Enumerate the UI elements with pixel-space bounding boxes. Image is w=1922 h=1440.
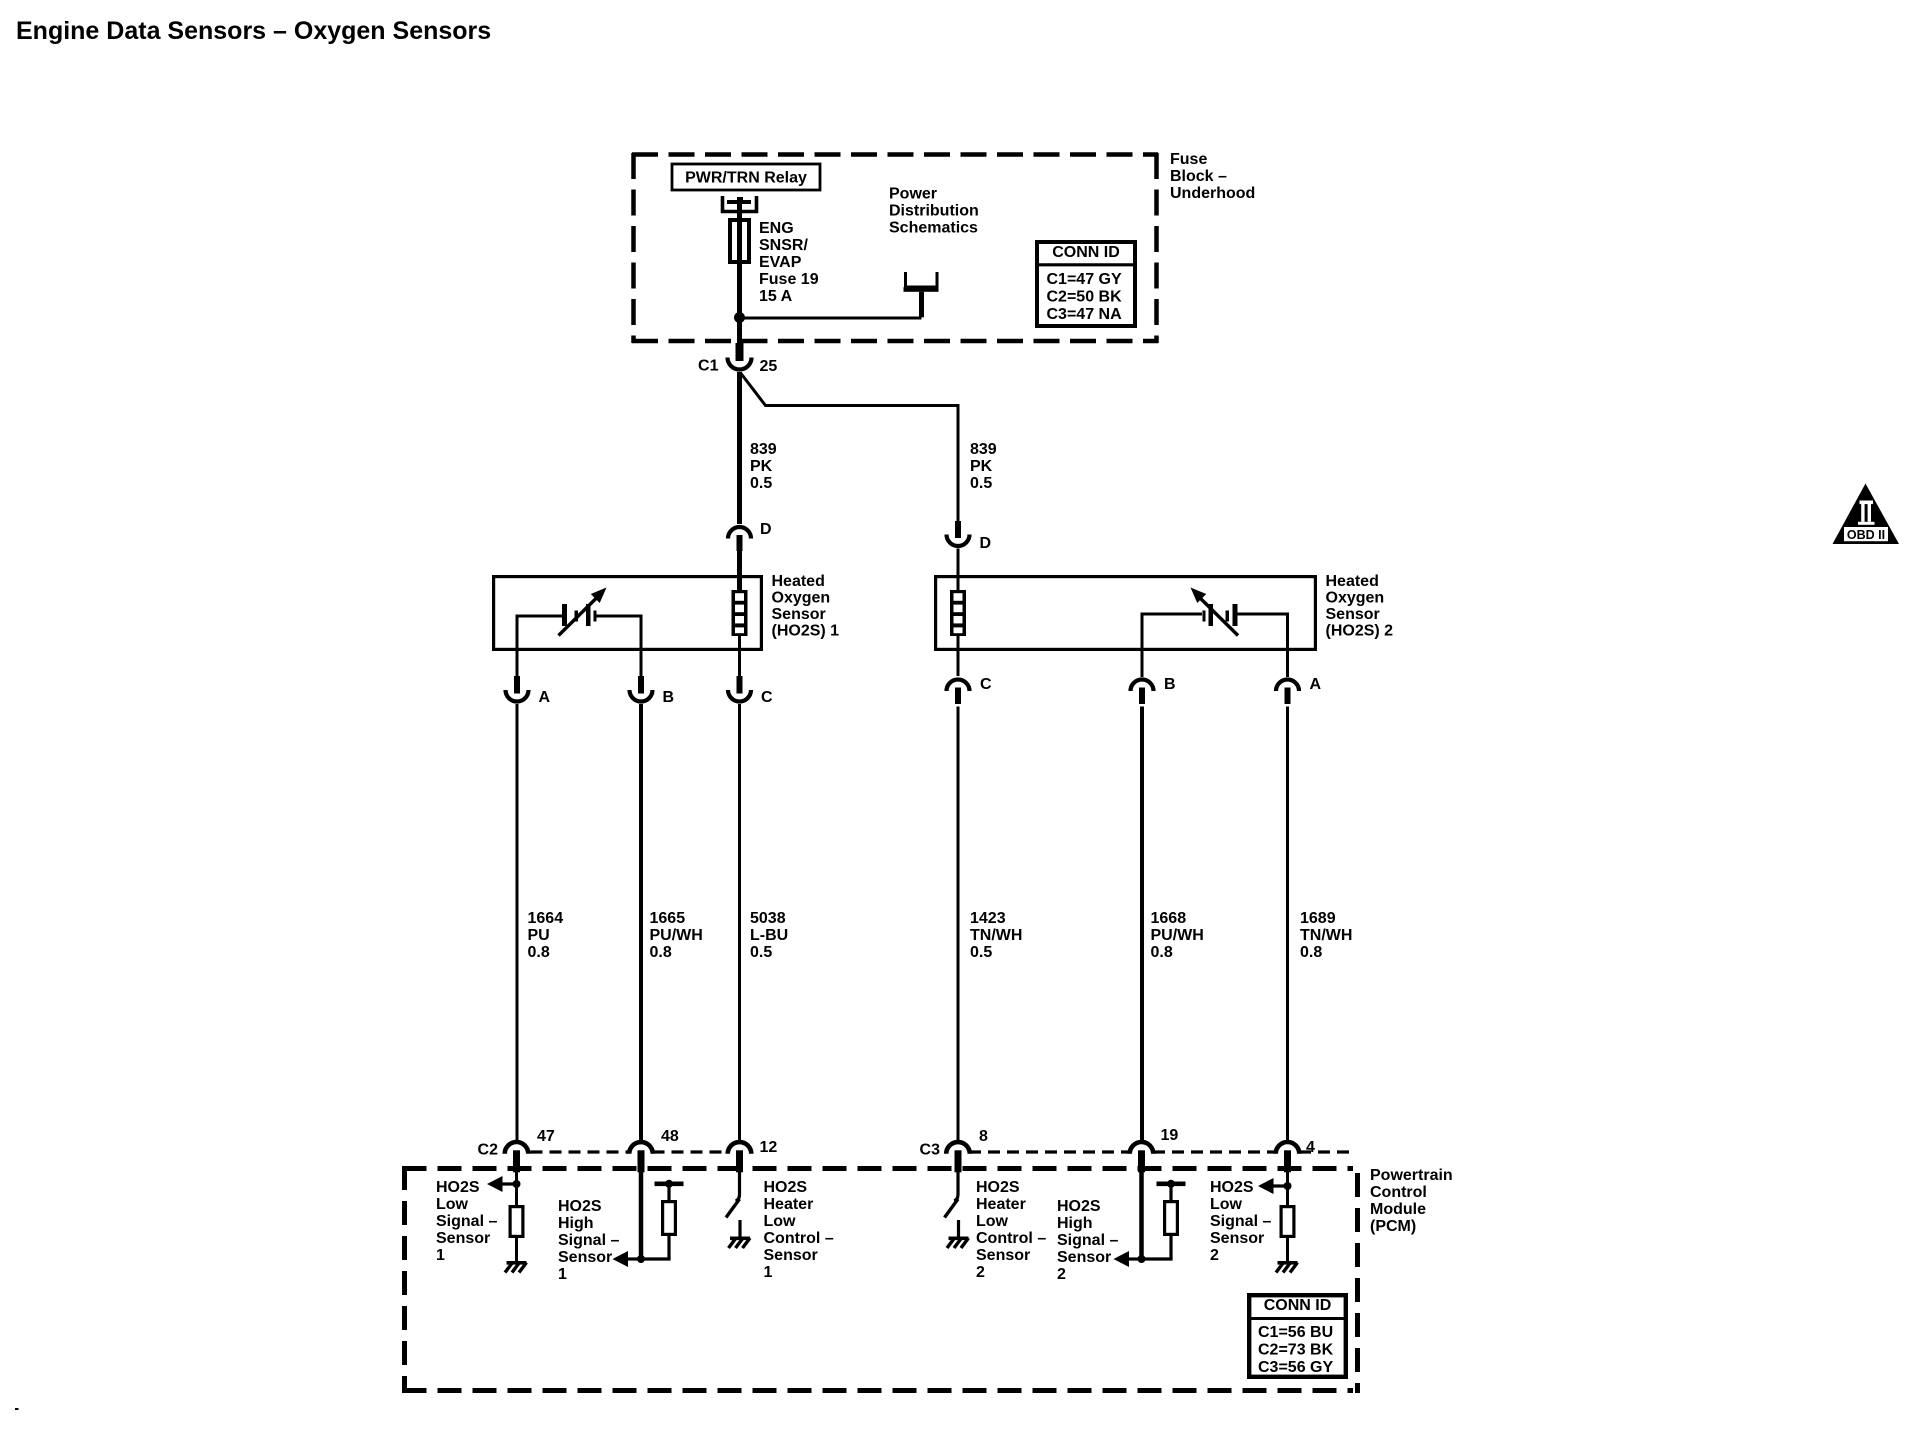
svg-text:0.5: 0.5 — [970, 944, 992, 961]
svg-text:2: 2 — [1210, 1247, 1219, 1264]
svg-text:Sensor: Sensor — [772, 606, 826, 623]
svg-text:C3: C3 — [920, 1142, 941, 1159]
svg-text:Engine Data Sensors – Oxygen S: Engine Data Sensors – Oxygen Sensors — [16, 17, 491, 45]
svg-text:EVAP: EVAP — [759, 254, 802, 271]
svg-text:CONN ID: CONN ID — [1052, 244, 1120, 261]
svg-text:Heated: Heated — [772, 573, 825, 590]
svg-text:C2=73 BK: C2=73 BK — [1258, 1342, 1334, 1359]
svg-text:L-BU: L-BU — [750, 927, 788, 944]
svg-text:0.5: 0.5 — [750, 475, 772, 492]
svg-text:Heater: Heater — [976, 1196, 1026, 1213]
svg-text:8: 8 — [979, 1128, 988, 1145]
svg-text:C: C — [980, 676, 992, 693]
svg-text:HO2S: HO2S — [764, 1179, 808, 1196]
svg-text:47: 47 — [537, 1128, 555, 1145]
svg-text:Block –: Block – — [1170, 168, 1227, 185]
svg-text:1665: 1665 — [650, 910, 686, 927]
svg-text:2: 2 — [976, 1264, 985, 1281]
svg-text:1: 1 — [436, 1247, 445, 1264]
svg-text:839: 839 — [970, 441, 997, 458]
svg-text:PK: PK — [750, 458, 773, 475]
svg-text:C3=56 GY: C3=56 GY — [1258, 1359, 1333, 1376]
svg-text:1423: 1423 — [970, 910, 1006, 927]
svg-text:HO2S: HO2S — [1057, 1198, 1101, 1215]
svg-text:Powertrain: Powertrain — [1370, 1167, 1453, 1184]
svg-text:High: High — [558, 1215, 594, 1232]
svg-text:0.8: 0.8 — [528, 944, 550, 961]
svg-text:SNSR/: SNSR/ — [759, 237, 808, 254]
svg-text:PU/WH: PU/WH — [650, 927, 703, 944]
svg-text:Power: Power — [889, 186, 937, 203]
svg-text:1664: 1664 — [528, 910, 564, 927]
svg-text:Low: Low — [1210, 1196, 1243, 1213]
svg-text:Sensor: Sensor — [1326, 606, 1380, 623]
svg-text:Low: Low — [976, 1213, 1009, 1230]
svg-text:C2: C2 — [478, 1142, 499, 1159]
svg-text:0.8: 0.8 — [1151, 944, 1173, 961]
svg-text:2: 2 — [1057, 1266, 1066, 1283]
svg-text:Signal –: Signal – — [558, 1232, 619, 1249]
svg-text:Signal –: Signal – — [1057, 1232, 1118, 1249]
svg-text:5038: 5038 — [750, 910, 786, 927]
svg-text:Control: Control — [1370, 1184, 1427, 1201]
svg-text:Low: Low — [436, 1196, 469, 1213]
svg-text:High: High — [1057, 1215, 1093, 1232]
svg-text:Sensor: Sensor — [1210, 1230, 1264, 1247]
svg-text:OBD II: OBD II — [1847, 528, 1885, 542]
svg-text:1: 1 — [558, 1266, 567, 1283]
svg-text:1689: 1689 — [1300, 910, 1336, 927]
svg-text:PU/WH: PU/WH — [1151, 927, 1204, 944]
svg-text:1: 1 — [764, 1264, 773, 1281]
svg-text:A: A — [1310, 676, 1322, 693]
svg-text:Signal –: Signal – — [1210, 1213, 1271, 1230]
svg-text:(PCM): (PCM) — [1370, 1218, 1416, 1235]
svg-text:Underhood: Underhood — [1170, 185, 1255, 202]
svg-text:839: 839 — [750, 441, 777, 458]
svg-text:HO2S: HO2S — [1210, 1179, 1254, 1196]
svg-text:Fuse 19: Fuse 19 — [759, 271, 819, 288]
svg-text:C2=50 BK: C2=50 BK — [1047, 289, 1123, 306]
svg-text:B: B — [1164, 676, 1176, 693]
svg-text:Sensor: Sensor — [558, 1249, 612, 1266]
svg-text:Low: Low — [764, 1213, 797, 1230]
svg-text:PU: PU — [528, 927, 550, 944]
svg-text:Control –: Control – — [976, 1230, 1046, 1247]
svg-text:Signal –: Signal – — [436, 1213, 497, 1230]
svg-text:Sensor: Sensor — [976, 1247, 1030, 1264]
svg-text:12: 12 — [760, 1139, 778, 1156]
svg-text:0.8: 0.8 — [650, 944, 672, 961]
svg-text:PWR/TRN Relay: PWR/TRN Relay — [685, 170, 807, 187]
svg-text:0.5: 0.5 — [750, 944, 772, 961]
svg-text:Module: Module — [1370, 1201, 1426, 1218]
svg-text:Heater: Heater — [764, 1196, 814, 1213]
svg-text:HO2S: HO2S — [436, 1179, 480, 1196]
svg-text:D: D — [760, 521, 772, 538]
svg-text:C3=47 NA: C3=47 NA — [1047, 306, 1123, 323]
svg-text:HO2S: HO2S — [558, 1198, 602, 1215]
svg-text:19: 19 — [1161, 1127, 1179, 1144]
svg-text:Distribution: Distribution — [889, 203, 979, 220]
svg-text:Sensor: Sensor — [1057, 1249, 1111, 1266]
svg-text:A: A — [539, 689, 551, 706]
svg-text:(HO2S) 2: (HO2S) 2 — [1326, 623, 1394, 640]
svg-text:Heated: Heated — [1326, 573, 1379, 590]
svg-text:TN/WH: TN/WH — [970, 927, 1022, 944]
svg-text:ENG: ENG — [759, 220, 794, 237]
svg-text:Schematics: Schematics — [889, 220, 978, 237]
svg-text:Control –: Control – — [764, 1230, 834, 1247]
svg-text:Fuse: Fuse — [1170, 151, 1207, 168]
svg-text:B: B — [663, 689, 675, 706]
svg-text:C: C — [761, 689, 773, 706]
svg-text:HO2S: HO2S — [976, 1179, 1020, 1196]
svg-text:(HO2S) 1: (HO2S) 1 — [772, 623, 840, 640]
svg-text:Oxygen: Oxygen — [772, 590, 831, 607]
svg-text:C1=47 GY: C1=47 GY — [1047, 271, 1122, 288]
svg-text:C1=56 BU: C1=56 BU — [1258, 1324, 1333, 1341]
svg-text:TN/WH: TN/WH — [1300, 927, 1352, 944]
svg-text:15 A: 15 A — [759, 288, 793, 305]
svg-text:Oxygen: Oxygen — [1326, 590, 1385, 607]
svg-text:Sensor: Sensor — [764, 1247, 818, 1264]
svg-text:0.8: 0.8 — [1300, 944, 1322, 961]
svg-text:25: 25 — [760, 358, 778, 375]
svg-text:C1: C1 — [698, 358, 719, 375]
svg-text:Sensor: Sensor — [436, 1230, 490, 1247]
svg-text:0.5: 0.5 — [970, 475, 992, 492]
svg-text:1668: 1668 — [1151, 910, 1187, 927]
svg-text:D: D — [980, 535, 992, 552]
svg-text:CONN ID: CONN ID — [1264, 1297, 1332, 1314]
svg-text:48: 48 — [661, 1128, 679, 1145]
svg-text:PK: PK — [970, 458, 993, 475]
